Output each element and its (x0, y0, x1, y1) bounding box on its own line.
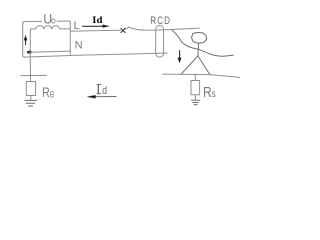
svg-text:o: o (51, 16, 56, 27)
svg-text:s: s (211, 89, 215, 100)
earth surface under person (163, 74, 240, 77)
switch blade at fault (125, 27, 129, 29)
svg-text:B: B (50, 90, 54, 100)
person: left leg (181, 56, 198, 75)
current arrow Id rightward on L (83, 25, 109, 28)
svg-text:Id: Id (92, 15, 103, 26)
svg-text:L: L (74, 20, 80, 32)
label U0 (43, 11, 55, 27)
svg-text:RCD: RCD (150, 15, 171, 27)
wire L fault to RCD (129, 27, 164, 30)
label RB (42, 84, 54, 100)
resistor RB body (26, 82, 35, 96)
wire U0 bracket right segment (57, 21, 70, 23)
svg-text:R: R (42, 84, 50, 100)
current arrow Id leftward (earth return) (88, 95, 117, 98)
wire N lower segment from left corner (24, 56, 70, 58)
wire N line to RCD (70, 53, 167, 55)
wire left vertical (U0 reference) (23, 23, 25, 57)
junction dot (neutral node) (27, 51, 32, 54)
RCD current transformer ring (156, 25, 164, 57)
label RS (203, 84, 216, 101)
svg-text:N: N (75, 40, 83, 52)
resistor RS body (191, 81, 200, 95)
transformer winding T1 (30, 26, 70, 52)
label Id bottom (earth return current) (97, 84, 107, 97)
current arrow Id down through person (178, 51, 181, 63)
wire U0 bracket left segment (23, 21, 42, 23)
svg-text:d: d (102, 85, 107, 97)
person: head (192, 33, 207, 44)
resistor RS lead bottom (194, 95, 196, 101)
person: right leg (198, 56, 210, 75)
resistor RB lead bottom (30, 96, 32, 101)
earth surface left (21, 74, 47, 76)
wire RCD to person contact (164, 28, 199, 30)
person: body (197, 43, 200, 56)
resistor RB lead top (29, 53, 31, 82)
person: right arm (199, 49, 234, 56)
ground symbol at RB (25, 100, 37, 106)
fault mark X on L (121, 28, 125, 32)
wire vertical node L/N junction column (69, 22, 71, 55)
wire neutral node to vertical column (29, 51, 70, 52)
ground symbol at RS (191, 100, 199, 104)
wire L from junction to fault (70, 29, 120, 32)
current arrow up (source polarity) (24, 36, 27, 45)
resistor RS lead top (194, 75, 196, 81)
person: raised arm touching line (172, 30, 199, 49)
